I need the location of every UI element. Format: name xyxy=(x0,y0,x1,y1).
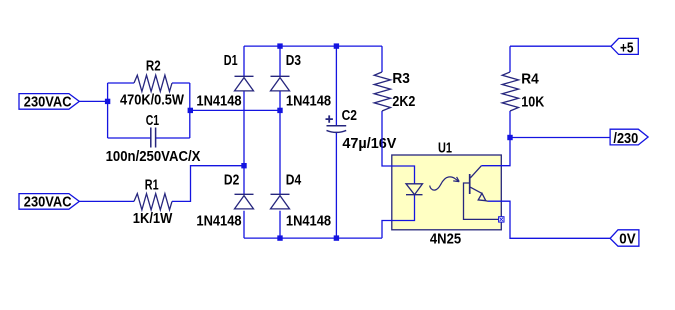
svg-text:0V: 0V xyxy=(619,232,636,248)
net flag /230 xyxy=(610,129,648,147)
capacitor C1 plates xyxy=(151,128,156,148)
svg-text:1N4148: 1N4148 xyxy=(286,213,331,229)
net flag 230VAC bottom input xyxy=(19,194,79,211)
net flag 0V xyxy=(610,230,639,248)
svg-text:R4: R4 xyxy=(521,72,539,88)
resistor R3 zigzag vertical xyxy=(374,72,390,111)
svg-text:D1: D1 xyxy=(224,53,238,69)
svg-text:1N4148: 1N4148 xyxy=(196,213,241,229)
wire D3 branch xyxy=(279,46,281,238)
svg-text:D4: D4 xyxy=(286,172,301,188)
wire +5 net xyxy=(510,45,611,47)
node junction top rail at C2 xyxy=(334,43,339,48)
svg-text:R1: R1 xyxy=(145,178,159,194)
svg-text:2K2: 2K2 xyxy=(392,94,415,110)
node junction AC1 at D3 branch xyxy=(277,108,282,113)
node junction bottom rail at C2 xyxy=(334,235,339,240)
node junction RC block right output xyxy=(188,108,193,113)
diode D2 xyxy=(235,194,254,209)
wire base pin of U1 xyxy=(464,183,502,219)
node junction at RC block left xyxy=(105,99,110,104)
svg-text:1N4148: 1N4148 xyxy=(286,94,331,110)
diode LED inside U1 xyxy=(406,184,423,195)
wire D1 branch xyxy=(243,46,245,238)
svg-text:C2: C2 xyxy=(342,108,357,124)
resistor R2 zigzag xyxy=(134,75,172,91)
svg-text:D3: D3 xyxy=(286,53,301,69)
diode D1 xyxy=(235,76,254,91)
node junction /230 tap xyxy=(507,135,512,140)
wire flag1 to RC block xyxy=(79,100,107,102)
wire R4 branch xyxy=(509,46,511,137)
wire /230 net xyxy=(510,137,610,139)
svg-text:4N25: 4N25 xyxy=(430,232,461,248)
wire top rail xyxy=(244,45,382,47)
wire RC block loop xyxy=(108,83,190,138)
op-amp U1 optocoupler body xyxy=(392,155,502,230)
wire bottom rail xyxy=(244,237,382,239)
svg-text:R2: R2 xyxy=(146,59,161,75)
svg-text:1N4148: 1N4148 xyxy=(196,94,241,110)
wire R3 branch to opto LED xyxy=(382,46,415,238)
svg-text:/230: /230 xyxy=(613,131,638,147)
wire R1 to bridge D1/D2 xyxy=(172,166,244,202)
net flag +5 xyxy=(611,38,638,56)
net flag 230VAC top input xyxy=(19,94,79,111)
wire C2 branch xyxy=(335,46,337,238)
wire collector to /230 node xyxy=(481,138,510,166)
resistor R4 zigzag vertical xyxy=(502,72,518,111)
svg-text:C1: C1 xyxy=(146,113,159,129)
capacitor C2 electrolytic xyxy=(326,115,347,132)
svg-text:230VAC: 230VAC xyxy=(24,95,72,111)
node junction top rail at D3 xyxy=(277,43,282,48)
wire emitter to 0V xyxy=(488,201,610,238)
node junction AC2 at D1 branch xyxy=(241,163,246,168)
svg-text:47µ/16V: 47µ/16V xyxy=(342,136,396,152)
svg-text:D2: D2 xyxy=(224,172,239,188)
transistor Q inside U1 xyxy=(470,166,488,201)
svg-text:470K/0.5W: 470K/0.5W xyxy=(120,93,184,109)
diode D4 xyxy=(271,194,290,209)
svg-text:100n/250VAC/X: 100n/250VAC/X xyxy=(106,149,201,165)
node junction bottom rail at D4 xyxy=(277,235,282,240)
svg-text:R3: R3 xyxy=(392,71,410,87)
pin marker unconnected base xyxy=(499,217,504,222)
wire flag2 to R1 xyxy=(79,200,134,202)
wire RC output to bridge D3/D4 xyxy=(190,109,280,111)
svg-text:1K/1W: 1K/1W xyxy=(133,211,173,227)
svg-text:10K: 10K xyxy=(521,94,544,110)
resistor R1 zigzag xyxy=(134,194,172,210)
light coupling arrow inside U1 xyxy=(430,177,459,190)
svg-text:230VAC: 230VAC xyxy=(24,195,72,211)
svg-text:+5: +5 xyxy=(620,40,634,56)
diode D3 xyxy=(271,76,290,91)
svg-text:U1: U1 xyxy=(438,140,452,156)
